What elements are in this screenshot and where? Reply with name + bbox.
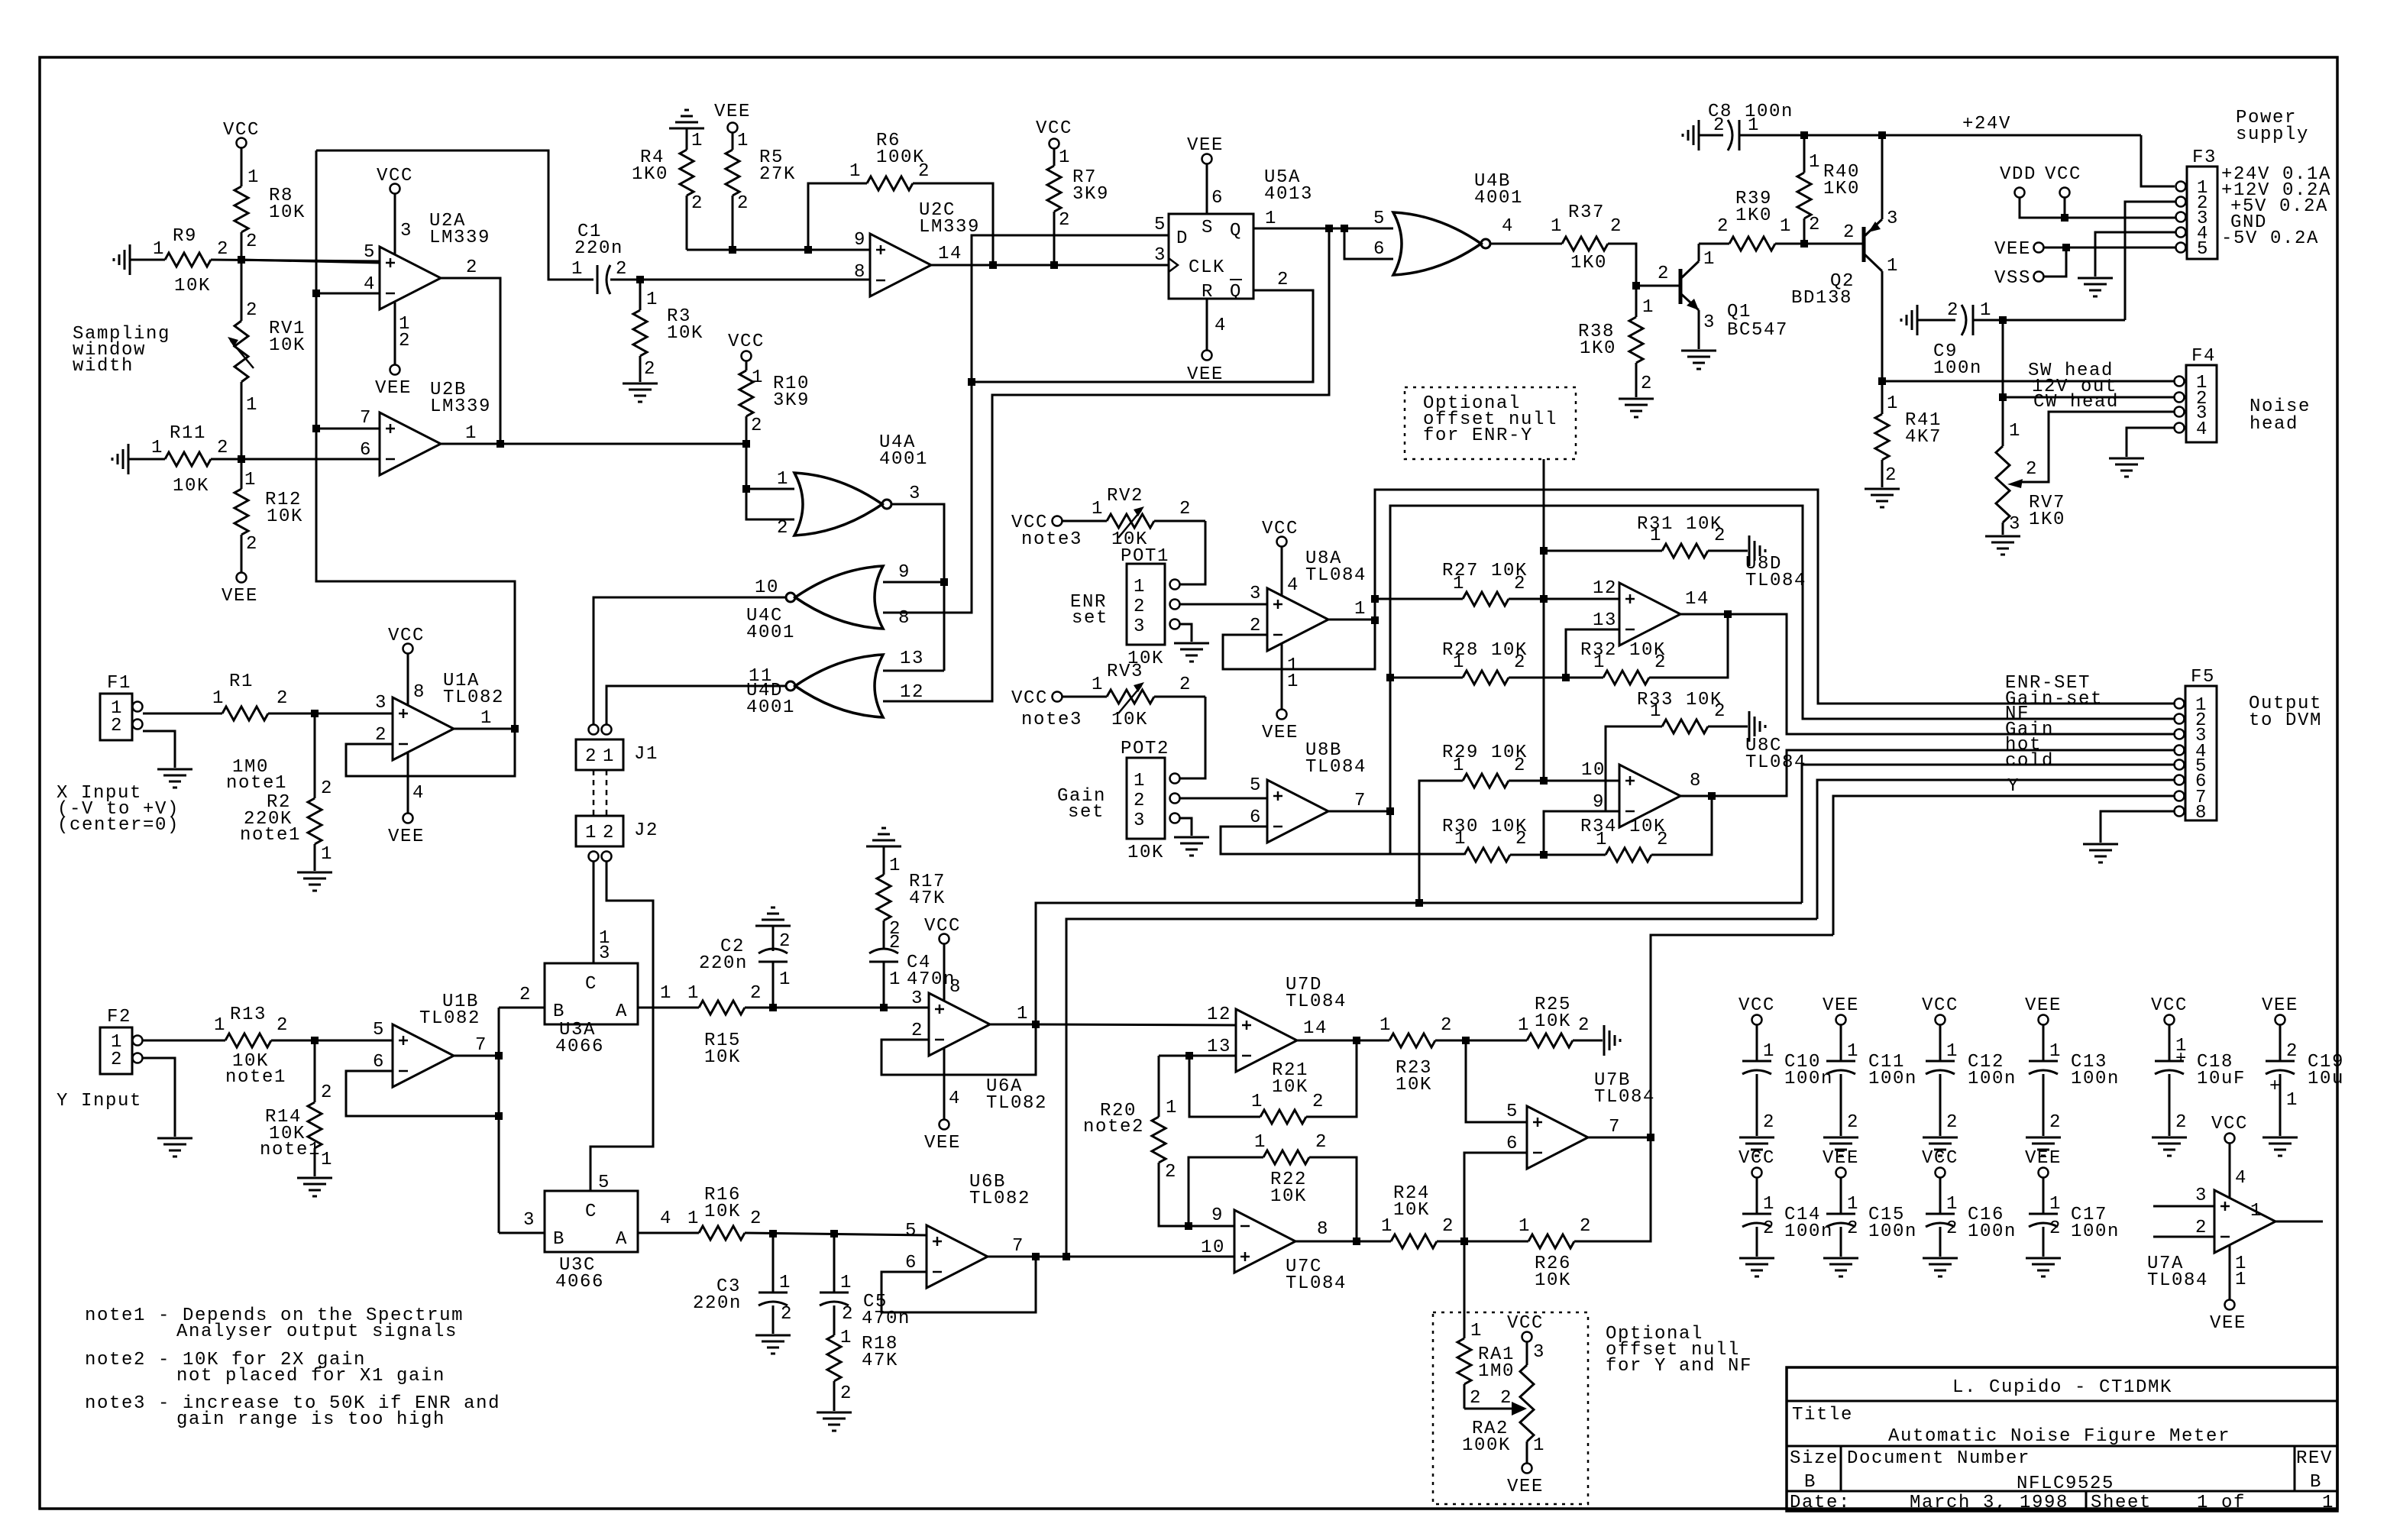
junction C1/R3 — [636, 276, 644, 283]
trim connector POT1 — [1070, 546, 1180, 669]
svg-text:9: 9 — [898, 562, 910, 583]
svg-text:2: 2 — [1946, 1112, 1958, 1133]
resistor R23 — [1379, 1015, 1527, 1095]
svg-text:VCC: VCC — [1262, 519, 1299, 539]
junction R16/C5 — [830, 1230, 838, 1237]
svg-text:for Y and NF: for Y and NF — [1606, 1356, 1752, 1377]
svg-text:B: B — [2310, 1472, 2322, 1493]
wire F2.2 to ground — [143, 1058, 175, 1137]
svg-text:7: 7 — [475, 1035, 487, 1056]
svg-text:VEE: VEE — [1187, 135, 1224, 156]
junction U7C output — [1353, 1237, 1360, 1245]
potentiometer RV1 — [228, 260, 306, 459]
svg-text:note2: note2 — [1083, 1117, 1144, 1137]
resistor R5 — [726, 131, 796, 250]
svg-text:100n: 100n — [2071, 1221, 2120, 1242]
dashed box optional offset null ENR-Y — [1405, 387, 1576, 459]
wire U1B output to U3A/U3C — [454, 985, 545, 1233]
junction U2B+ node — [312, 425, 320, 432]
svg-text:R13: R13 — [230, 1005, 267, 1025]
capacitor C14 100n — [1742, 1178, 1833, 1257]
svg-text:8: 8 — [2195, 803, 2207, 823]
svg-text:10K: 10K — [174, 276, 211, 296]
power flag VCC (RV2) — [1011, 513, 1107, 533]
svg-text:1: 1 — [1763, 1194, 1775, 1215]
power flag VCC (R10) — [728, 332, 765, 370]
power flag VEE (U8A pin11) — [1262, 643, 1299, 743]
NOR gate U4A 4001 — [777, 432, 928, 539]
svg-text:C: C — [585, 1202, 597, 1222]
wire U4C output pin10 to J1.2 — [594, 597, 787, 724]
resistor R38 — [1578, 286, 1654, 397]
svg-text:+24V: +24V — [1962, 114, 2011, 134]
X Input label — [57, 783, 180, 836]
svg-text:SW head: SW head — [2028, 361, 2114, 381]
wire F4.4 to ground — [2127, 428, 2174, 457]
svg-text:VEE: VEE — [1823, 995, 1859, 1016]
junction U1B output — [495, 1052, 503, 1060]
svg-text:2: 2 — [777, 518, 789, 539]
svg-text:100n: 100n — [1784, 1221, 1833, 1242]
svg-text:Size: Size — [1790, 1448, 1839, 1469]
power flag VCC (supply) — [2045, 164, 2081, 218]
wire U7C- node — [1189, 1225, 1234, 1228]
svg-text:4: 4 — [2196, 419, 2208, 440]
svg-text:supply: supply — [2236, 125, 2309, 145]
svg-text:1: 1 — [1980, 300, 1992, 321]
svg-text:1: 1 — [1166, 1098, 1178, 1118]
svg-text:3: 3 — [1533, 1342, 1545, 1363]
svg-text:1: 1 — [1847, 1194, 1859, 1215]
svg-text:2: 2 — [2049, 1112, 2062, 1133]
capacitor C13 100n — [2029, 1025, 2120, 1136]
resistor R13 — [143, 1005, 393, 1088]
junction U8B output — [1386, 807, 1394, 815]
svg-text:2: 2 — [375, 725, 387, 746]
svg-text:10K: 10K — [1272, 1077, 1308, 1098]
connector F3 — [2176, 147, 2218, 260]
svg-text:TL084: TL084 — [1286, 992, 1347, 1012]
ground (R11) — [112, 444, 128, 474]
svg-text:head: head — [2250, 414, 2298, 435]
svg-text:1: 1 — [321, 844, 333, 865]
svg-text:TL084: TL084 — [1594, 1087, 1655, 1108]
ground (R41) — [1865, 489, 1900, 507]
svg-text:100n: 100n — [2071, 1069, 2120, 1089]
svg-text:VEE: VEE — [222, 586, 258, 607]
svg-text:3: 3 — [1250, 584, 1262, 604]
svg-text:1: 1 — [1518, 1015, 1530, 1036]
wire RV2 to POT1.1 — [1180, 521, 1205, 584]
svg-text:TL082: TL082 — [986, 1093, 1047, 1114]
svg-text:2: 2 — [246, 534, 258, 555]
junction U7B output / Y — [1647, 1134, 1654, 1141]
junction R27 tap — [1371, 595, 1379, 603]
svg-text:10uF: 10uF — [2197, 1069, 2246, 1089]
wire U4B pin6 tie — [1344, 228, 1393, 259]
svg-text:1: 1 — [585, 823, 597, 843]
capacitor C11 100n — [1826, 1025, 1917, 1136]
title block — [1787, 1367, 2337, 1513]
svg-text:2: 2 — [1658, 264, 1670, 284]
svg-text:4066: 4066 — [555, 1037, 604, 1057]
svg-text:VCC: VCC — [1036, 118, 1072, 139]
power flag VCC (U8A pin4) — [1262, 519, 1299, 597]
svg-text:2: 2 — [217, 239, 229, 260]
svg-text:POT1: POT1 — [1121, 546, 1169, 567]
svg-text:10K: 10K — [704, 1047, 741, 1068]
resistor R16 — [638, 1185, 927, 1240]
svg-text:1: 1 — [1287, 671, 1299, 692]
svg-text:6: 6 — [1506, 1134, 1519, 1154]
transistor Q2 BD138 — [1791, 135, 1899, 381]
svg-text:4: 4 — [2235, 1168, 2247, 1189]
wire U6B output / cold rail — [988, 919, 1817, 1257]
svg-text:C: C — [585, 974, 597, 995]
svg-text:Automatic Noise Figure Meter: Automatic Noise Figure Meter — [1888, 1426, 2230, 1447]
svg-text:CLK: CLK — [1189, 257, 1225, 278]
svg-text:R27 10K: R27 10K — [1442, 561, 1528, 581]
capacitor C10 100n — [1742, 1025, 1833, 1136]
wire RV7 wiper CW head to F4.3 — [2007, 392, 2174, 488]
power flag VSS — [1994, 247, 2066, 289]
junction R31 tap — [1540, 547, 1548, 555]
svg-text:11: 11 — [749, 666, 773, 687]
wire U7A output stub — [2275, 1221, 2323, 1223]
power flag VEE (U5A pin4) — [1187, 299, 1224, 385]
svg-text:2: 2 — [321, 778, 333, 799]
junction U7D output — [1353, 1037, 1360, 1044]
wire F3.4 to ground — [2095, 232, 2175, 277]
svg-text:9: 9 — [854, 230, 866, 251]
svg-text:note3: note3 — [1021, 710, 1082, 730]
junction R7/output — [1050, 261, 1058, 269]
svg-text:2: 2 — [1641, 374, 1653, 394]
svg-text:2: 2 — [1179, 499, 1192, 519]
svg-text:2: 2 — [1441, 1015, 1453, 1036]
power flag VCC (C18) — [2151, 995, 2188, 1025]
svg-text:3: 3 — [2009, 514, 2021, 535]
potentiometer RV2 — [1021, 486, 1205, 550]
junction VDD/VCC — [2061, 214, 2068, 222]
svg-text:13: 13 — [1207, 1037, 1231, 1057]
svg-text:10: 10 — [1581, 760, 1606, 781]
wire RA1 to RA2 wiper — [1464, 1388, 1527, 1415]
svg-text:10u: 10u — [2308, 1069, 2344, 1089]
power flag VEE (supply) — [1994, 239, 2175, 260]
svg-text:1: 1 — [849, 161, 862, 182]
svg-text:RV3: RV3 — [1107, 662, 1143, 682]
wire POT1.2 to U8A+ — [1180, 603, 1267, 606]
svg-text:1: 1 — [1946, 1194, 1958, 1215]
junction U7D- / R20 / R21 — [1185, 1052, 1193, 1060]
svg-text:1: 1 — [2322, 1493, 2334, 1513]
svg-text:3: 3 — [1134, 616, 1146, 637]
svg-text:1: 1 — [1551, 216, 1563, 237]
wire U8B output / Gain-set rail — [1328, 506, 2175, 854]
capacitor C16 100n — [1926, 1178, 2017, 1257]
ground (F3.4) — [2078, 278, 2113, 296]
svg-text:1: 1 — [2235, 1270, 2247, 1290]
svg-text:7: 7 — [1354, 791, 1367, 811]
wire hot to F5.5 — [1802, 735, 2175, 903]
svg-text:10K: 10K — [1535, 1011, 1571, 1032]
svg-text:4001: 4001 — [879, 449, 928, 470]
svg-text:1: 1 — [752, 367, 764, 388]
wire U4D pin13 — [883, 670, 944, 672]
svg-text:2: 2 — [1312, 1092, 1324, 1112]
wire J2.right to U3C control — [590, 862, 653, 1191]
junction VEE/VSS — [2062, 244, 2070, 251]
op-amp U1B TL082 — [373, 992, 487, 1087]
svg-text:9: 9 — [1593, 792, 1605, 813]
ground (F5.8) — [2083, 844, 2118, 862]
resistor R11 — [128, 423, 380, 497]
capacitor C12 100n — [1926, 1025, 2017, 1136]
svg-text:VEE: VEE — [1262, 723, 1299, 743]
svg-text:2: 2 — [1250, 616, 1262, 636]
svg-text:10: 10 — [1201, 1237, 1225, 1258]
ground (R9) — [114, 244, 130, 275]
svg-text:1: 1 — [737, 131, 749, 151]
svg-text:100n: 100n — [1868, 1221, 1917, 1242]
wire U6A feedback — [881, 1024, 1036, 1075]
capacitor C8 100n — [1683, 102, 1793, 150]
svg-text:1K0: 1K0 — [1823, 179, 1860, 199]
ground (C15) — [1823, 1258, 1858, 1276]
svg-text:1: 1 — [214, 1015, 226, 1036]
Sampling window width label — [73, 324, 170, 377]
svg-text:1: 1 — [1092, 675, 1104, 695]
svg-text:VCC: VCC — [2211, 1114, 2248, 1134]
svg-text:8: 8 — [949, 977, 962, 998]
svg-text:1: 1 — [244, 470, 257, 490]
capacitor C17 100n — [2029, 1178, 2120, 1257]
svg-text:8: 8 — [1690, 771, 1702, 791]
svg-text:TL084: TL084 — [1745, 571, 1806, 591]
svg-text:VEE: VEE — [924, 1133, 961, 1153]
svg-text:+: + — [2269, 1076, 2282, 1097]
ground (F2.2) — [157, 1138, 192, 1157]
svg-text:4: 4 — [660, 1208, 672, 1229]
wire U7B output / Y rail — [1588, 935, 1833, 1137]
svg-text:L. Cupido - CT1DMK: L. Cupido - CT1DMK — [1952, 1377, 2172, 1398]
jumper dashed links J1-J2 — [594, 770, 606, 816]
junction R6 left — [804, 246, 812, 254]
svg-text:3: 3 — [909, 484, 921, 504]
svg-text:VDD: VDD — [2000, 164, 2036, 185]
svg-text:4066: 4066 — [555, 1272, 604, 1292]
svg-text:10K: 10K — [269, 202, 306, 223]
svg-text:1: 1 — [1763, 1041, 1775, 1062]
svg-text:TL084: TL084 — [2147, 1270, 2208, 1291]
resistor R26 — [1464, 1137, 1651, 1291]
resistor R25 — [1518, 995, 1603, 1047]
svg-text:27K: 27K — [759, 164, 796, 185]
svg-text:VCC: VCC — [728, 332, 765, 352]
svg-text:March 3, 1998: March 3, 1998 — [1910, 1493, 2068, 1513]
svg-text:note3: note3 — [1021, 529, 1082, 550]
svg-text:5: 5 — [373, 1020, 385, 1040]
junction R29 summing — [1540, 777, 1548, 785]
svg-text:1: 1 — [151, 438, 163, 458]
op-amp U1A TL082 — [375, 671, 504, 760]
svg-text:5: 5 — [905, 1221, 917, 1241]
junction R15/C2 — [769, 1004, 777, 1011]
resistor R28 — [1390, 640, 1566, 684]
svg-text:VCC: VCC — [1011, 688, 1048, 709]
junction R11/RV1/R12 — [238, 455, 245, 463]
ground (C10) — [1739, 1137, 1774, 1156]
svg-text:100K: 100K — [1462, 1435, 1511, 1456]
svg-text:2: 2 — [616, 259, 628, 280]
svg-text:2: 2 — [737, 193, 749, 214]
svg-text:1: 1 — [1265, 209, 1277, 229]
resistor R41 — [1875, 381, 1942, 487]
resistor R4 — [632, 131, 703, 250]
svg-text:VEE: VEE — [1507, 1477, 1544, 1497]
svg-text:+: + — [2175, 1049, 2188, 1069]
power flag VCC (U1A pin8) — [388, 626, 425, 706]
ground (C13) — [2026, 1137, 2061, 1156]
ground (C12) — [1923, 1137, 1958, 1156]
svg-text:2: 2 — [585, 746, 597, 767]
ground (F1.2) — [157, 769, 192, 788]
svg-text:2: 2 — [1179, 675, 1192, 695]
power flag VEE (U5A pin6) — [1187, 135, 1224, 214]
svg-text:3: 3 — [1154, 245, 1166, 266]
comparator U2C LM339 — [854, 200, 980, 296]
svg-text:2: 2 — [1713, 115, 1726, 136]
svg-text:1: 1 — [1251, 1092, 1263, 1112]
svg-text:220n: 220n — [699, 953, 748, 974]
svg-text:R29 10K: R29 10K — [1442, 742, 1528, 763]
resistor R10 — [739, 367, 810, 444]
wire U4D output pin11 to J1.1 — [606, 686, 787, 724]
junction R28/R32/U8D- — [1562, 674, 1570, 681]
ground (C17) — [2026, 1258, 2061, 1276]
svg-text:5: 5 — [1250, 775, 1262, 796]
svg-text:3: 3 — [1887, 209, 1899, 229]
svg-text:10K: 10K — [1393, 1200, 1430, 1221]
junction R24/R26/RA1/U7B- — [1460, 1237, 1468, 1245]
power flag VEE (RA2) — [1507, 1464, 1544, 1498]
ground (R33 right) — [1749, 711, 1765, 742]
svg-text:1: 1 — [1470, 1321, 1483, 1341]
svg-text:100n: 100n — [1784, 1069, 1833, 1089]
power flag VEE (C17) — [2025, 1148, 2062, 1178]
wire U8C+ input — [1544, 780, 1619, 782]
power flag VEE (U7A pin11) — [2210, 1245, 2247, 1334]
svg-text:1: 1 — [1809, 152, 1821, 173]
svg-text:Y Input: Y Input — [57, 1091, 142, 1111]
svg-text:4: 4 — [1287, 575, 1299, 596]
svg-text:NFLC9525: NFLC9525 — [2017, 1474, 2114, 1494]
svg-text:1: 1 — [779, 969, 791, 990]
svg-text:RV2: RV2 — [1107, 486, 1143, 506]
flip-flop U5A 4013 — [1154, 167, 1313, 336]
svg-text:to DVM: to DVM — [2249, 710, 2322, 731]
svg-text:2: 2 — [1315, 1132, 1328, 1153]
svg-text:1: 1 — [889, 856, 901, 876]
junction R28 tap — [1386, 674, 1394, 681]
svg-text:6: 6 — [1373, 239, 1386, 260]
svg-text:1: 1 — [1134, 771, 1146, 791]
svg-text:VEE: VEE — [388, 827, 425, 847]
resistor R18 — [827, 1328, 898, 1411]
wire U8D+ input — [1544, 598, 1619, 600]
svg-text:3K9: 3K9 — [1072, 184, 1109, 205]
svg-text:LM339: LM339 — [430, 396, 491, 417]
svg-text:VEE: VEE — [1994, 239, 2031, 260]
svg-text:7: 7 — [1609, 1117, 1621, 1137]
wire U8D- node — [1566, 629, 1619, 678]
power flag VCC (C12) — [1922, 995, 1958, 1025]
junction R37/Q1 base/R38 — [1632, 282, 1640, 290]
svg-text:6: 6 — [360, 440, 372, 461]
svg-text:2: 2 — [277, 1015, 289, 1036]
svg-text:4: 4 — [1215, 315, 1227, 336]
junction R8/R9/RV1 — [238, 256, 245, 264]
svg-text:VCC: VCC — [1738, 995, 1775, 1016]
svg-text:4001: 4001 — [746, 697, 795, 718]
wire U8D output / NF rail — [1680, 614, 2175, 734]
svg-text:TL082: TL082 — [443, 687, 504, 708]
wire U8A output / ENR-SET rail — [1328, 490, 2175, 704]
svg-text:VEE: VEE — [2025, 1148, 2062, 1169]
svg-text:2: 2 — [1947, 300, 1959, 321]
svg-text:1: 1 — [1887, 256, 1899, 277]
svg-text:14: 14 — [1685, 589, 1709, 610]
svg-text:R33 10K: R33 10K — [1637, 690, 1722, 710]
svg-text:B: B — [553, 1001, 565, 1022]
svg-text:Y: Y — [2007, 776, 2020, 797]
svg-text:note1: note1 — [240, 825, 301, 846]
potentiometer RV3 — [1021, 662, 1205, 730]
wire U7B- to R24 node — [1464, 1153, 1527, 1241]
svg-text:VCC: VCC — [223, 120, 260, 141]
svg-text:4013: 4013 — [1264, 184, 1313, 205]
svg-text:2: 2 — [1470, 1388, 1482, 1409]
svg-text:VCC: VCC — [1922, 995, 1958, 1016]
resistor R21 — [1251, 1040, 1357, 1124]
svg-text:R37: R37 — [1568, 202, 1605, 223]
svg-text:6: 6 — [905, 1253, 917, 1273]
resistor R8 — [234, 148, 306, 257]
op-amp U8D TL084 — [1593, 554, 1806, 645]
svg-text:VCC: VCC — [924, 916, 961, 937]
svg-text:10K: 10K — [1270, 1186, 1307, 1207]
svg-text:1K0: 1K0 — [1570, 253, 1607, 273]
svg-text:2: 2 — [751, 416, 763, 436]
svg-text:F5: F5 — [2191, 667, 2215, 687]
svg-text:cold: cold — [2005, 751, 2054, 772]
svg-text:2: 2 — [246, 300, 258, 321]
svg-text:2: 2 — [1847, 1112, 1859, 1133]
svg-text:Analyser output signals: Analyser output signals — [176, 1322, 458, 1342]
svg-text:7: 7 — [1012, 1236, 1024, 1257]
ground (R38) — [1619, 399, 1654, 417]
svg-text:TL084: TL084 — [1305, 565, 1367, 586]
junction comparator outputs — [496, 440, 504, 448]
svg-text:F4: F4 — [2191, 346, 2216, 367]
op-amp U8A TL084 — [1250, 548, 1367, 651]
svg-text:1: 1 — [2049, 1041, 2062, 1062]
svg-text:VEE: VEE — [2210, 1313, 2246, 1334]
svg-text:D: D — [1176, 228, 1189, 249]
wire U8A feedback — [1223, 620, 1375, 669]
svg-text:6: 6 — [1250, 807, 1262, 828]
